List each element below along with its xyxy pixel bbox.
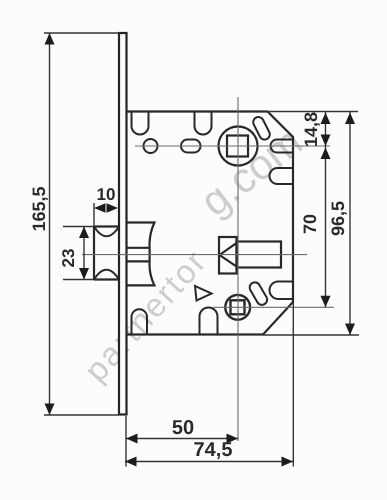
dimension 50 line: [126, 438, 238, 440]
bottom notch left: [132, 309, 148, 334]
diagonal slot top: [251, 115, 271, 141]
svg-text:70: 70: [300, 214, 320, 234]
privacy pin circle: [225, 295, 250, 320]
dimension 96,5 arrow top: [345, 113, 355, 125]
follower large block: [237, 242, 282, 268]
dimension 96,5 line: [349, 112, 351, 336]
svg-text:96,5: 96,5: [328, 201, 348, 236]
top edge extension line (to 96,5 dim): [268, 111, 359, 113]
dimension 10 extension left: [93, 203, 95, 226]
spindle hole circle: [219, 127, 258, 166]
dimension 14,8 arrow bottom: [321, 135, 331, 147]
top mounting notch right: [195, 112, 212, 135]
dimension 165,5 line: [49, 33, 51, 415]
dimension 14,8 / 70 line: [325, 112, 327, 308]
centerline horizontal pin: [213, 306, 334, 308]
diagonal slot bottom: [248, 280, 269, 306]
dimension 165,5 extension top: [44, 32, 119, 34]
dimension 96,5 arrow bottom: [345, 324, 355, 336]
extension line case right edge down: [292, 302, 294, 467]
dimension 74,5 arrow left: [125, 457, 137, 467]
dimension 74,5 arrow right: [282, 457, 294, 467]
latch bolt body: [127, 223, 154, 286]
dimension 50 arrow left: [126, 434, 138, 444]
round hole: [144, 139, 158, 153]
horizontal slot: [181, 140, 201, 153]
dimension 165,5 arrow bottom: [45, 404, 55, 416]
right edge slot 2: [270, 168, 294, 184]
dimension 70 arrow bottom: [321, 296, 331, 308]
svg-text:23: 23: [59, 249, 78, 268]
dimension 10 arrows: [94, 203, 118, 213]
dimension 74,5 line: [125, 461, 293, 463]
top mounting notch left: [132, 112, 149, 135]
extension line faceplate edge down: [125, 416, 127, 467]
centerline horizontal latch: [82, 254, 307, 256]
dimension 23 arrow top: [79, 227, 89, 239]
bottom edge extension line (to 96,5 dim): [263, 334, 359, 336]
latch bolt head: [94, 227, 119, 280]
faceplate: [119, 33, 127, 415]
small triangle: [195, 286, 212, 301]
centerline horizontal spindle: [135, 145, 330, 147]
svg-text:50: 50: [172, 417, 194, 439]
dimension 70 arrow top: [321, 148, 331, 160]
watermark partnertorg.com: [77, 118, 311, 389]
right edge slot 1: [271, 140, 294, 153]
dimension 165,5 extension bottom: [44, 414, 119, 416]
privacy pin square: [231, 300, 245, 314]
bottom notch right: [200, 308, 218, 335]
dimension 165,5 arrow top: [45, 33, 55, 45]
centerline vertical through spindle: [237, 97, 239, 441]
right edge slot bottom (C slot): [270, 282, 294, 300]
svg-text:14,8: 14,8: [301, 112, 321, 147]
follower small block with chevron: [219, 237, 237, 274]
dimension 23 extension top: [63, 226, 94, 228]
dimension 50 arrow right: [227, 434, 239, 444]
svg-text:74,5: 74,5: [194, 439, 233, 461]
lock case outline: [126, 112, 293, 335]
svg-text:10: 10: [97, 185, 116, 204]
dimension 14,8 arrow top: [321, 113, 331, 125]
svg-text:165,5: 165,5: [29, 186, 49, 231]
dimension 23 arrow bottom: [79, 268, 89, 280]
dimension 23 extension bottom: [63, 279, 94, 281]
dimension 23 line: [83, 227, 85, 280]
spindle square hole: [227, 136, 248, 157]
